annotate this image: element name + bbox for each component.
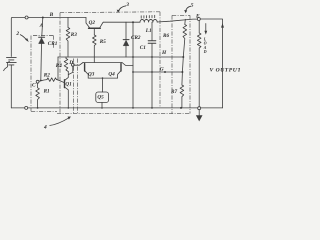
svg-text:E: E bbox=[195, 13, 200, 19]
box5 right bbox=[189, 15, 191, 113]
resistor R3 bbox=[66, 18, 70, 58]
resistor R1 bbox=[36, 83, 40, 108]
svg-text:C: C bbox=[32, 83, 36, 89]
svg-text:Q5: Q5 bbox=[97, 95, 104, 101]
svg-text:4: 4 bbox=[43, 125, 47, 131]
svg-text:C1: C1 bbox=[140, 45, 146, 51]
resistor R4 bbox=[64, 57, 68, 72]
svg-text:Q3: Q3 bbox=[88, 71, 95, 77]
ground bbox=[198, 110, 200, 116]
node C bbox=[36, 80, 39, 83]
svg-text:R2: R2 bbox=[44, 73, 50, 79]
Q4 emitter bbox=[118, 71, 121, 78]
node A bbox=[42, 17, 44, 19]
svg-text:R1: R1 bbox=[44, 88, 50, 94]
wire Q5 down bbox=[101, 102, 103, 108]
svg-text:D: D bbox=[203, 50, 207, 54]
leader battery squiggle bbox=[4, 62, 11, 71]
leader 2 bbox=[20, 35, 27, 41]
svg-text:Q4: Q4 bbox=[108, 71, 115, 77]
svg-text:B: B bbox=[49, 12, 54, 18]
box3 right bbox=[159, 12, 161, 108]
box2 left bbox=[30, 36, 32, 112]
svg-text:R6: R6 bbox=[163, 33, 169, 39]
wire D rail to tub bbox=[74, 63, 83, 66]
wire L1 to node E bbox=[157, 19, 197, 22]
svg-text:2: 2 bbox=[15, 31, 19, 37]
leader 3 bbox=[118, 6, 126, 11]
svg-text:R5: R5 bbox=[100, 39, 106, 45]
Q4 bar bbox=[120, 64, 122, 72]
terminal bottom bbox=[25, 106, 28, 109]
box4 left a bbox=[73, 59, 75, 114]
box4 left b bbox=[77, 59, 79, 114]
transistor Q1 bbox=[65, 72, 69, 108]
junction dots bbox=[37, 56, 185, 109]
output up arrow bbox=[221, 23, 224, 27]
wire D down to Q1 collector bbox=[68, 66, 73, 74]
wire Q2 collector out bbox=[104, 21, 140, 23]
svg-text:Q2: Q2 bbox=[89, 20, 96, 26]
wire bottom bus bbox=[11, 107, 222, 109]
node E terminal bbox=[197, 18, 200, 21]
diode CR1 bbox=[39, 36, 45, 38]
svg-text:CR1: CR1 bbox=[48, 41, 58, 47]
resistor R7 bbox=[180, 85, 184, 108]
svg-text:H: H bbox=[161, 50, 167, 56]
leader 5 bbox=[186, 6, 191, 11]
wire battery to bottom bbox=[10, 65, 12, 108]
L1 core bbox=[141, 15, 155, 18]
label LOAD vertical bbox=[203, 37, 207, 54]
svg-text:R3: R3 bbox=[71, 32, 77, 38]
svg-text:5: 5 bbox=[191, 3, 194, 9]
transistor Q2 bbox=[86, 18, 104, 36]
wire G (y72) bbox=[133, 71, 182, 73]
Q3 emitter bbox=[85, 71, 88, 78]
wire H (y57) bbox=[58, 56, 183, 58]
wire C to R2 bbox=[39, 80, 47, 82]
box2 right bbox=[53, 36, 55, 49]
svg-text:A: A bbox=[39, 23, 44, 29]
terminal load bottom bbox=[198, 107, 201, 110]
Q3 Q4 tub bbox=[74, 63, 133, 93]
svg-text:3: 3 bbox=[125, 2, 129, 8]
terminal top bbox=[25, 16, 28, 19]
Q3 bar bbox=[84, 64, 86, 72]
top rail bbox=[83, 62, 122, 64]
box2 top bbox=[33, 35, 54, 37]
box5 top bbox=[172, 14, 190, 16]
svg-text:CR2: CR2 bbox=[131, 35, 141, 41]
box3 bottom bbox=[57, 113, 190, 115]
svg-text:R4: R4 bbox=[56, 63, 62, 69]
wire CR1 to base row bbox=[40, 44, 43, 81]
svg-text:R7: R7 bbox=[171, 89, 177, 95]
node D bbox=[71, 63, 74, 66]
wire top bus left bbox=[12, 17, 86, 19]
load current down arrow bbox=[205, 24, 207, 32]
wire x133 column bbox=[132, 22, 134, 108]
svg-text:Q1: Q1 bbox=[65, 81, 72, 87]
inductor L1 bbox=[140, 19, 157, 22]
wire E to output corner bbox=[200, 19, 222, 108]
capacitor C1 bbox=[148, 40, 156, 42]
box2 bottom bbox=[31, 110, 57, 112]
wire R2 to Q1 base bbox=[56, 80, 63, 83]
box3 left bbox=[59, 13, 61, 114]
enclosure dash-dot lines bbox=[31, 12, 190, 114]
box5 left bbox=[171, 15, 173, 113]
resistor R5 bbox=[93, 35, 97, 62]
diode CR2 bbox=[123, 39, 129, 41]
resistor R6 bbox=[182, 19, 186, 72]
capacitor C1 column bbox=[151, 22, 153, 40]
transistor Q5 box bbox=[96, 92, 109, 102]
leader 4 bbox=[50, 118, 70, 126]
svg-text:V OUTPUT: V OUTPUT bbox=[210, 68, 241, 74]
load resistor bbox=[197, 21, 201, 107]
wire left vertical to battery bbox=[10, 18, 13, 57]
right diag out bbox=[122, 63, 133, 66]
resistor R2 bbox=[47, 78, 56, 82]
emitter rail bbox=[88, 77, 117, 79]
wire node A down bbox=[42, 18, 43, 37]
tap to Q5 bbox=[102, 78, 104, 92]
svg-text:D: D bbox=[68, 60, 73, 66]
svg-text:L1: L1 bbox=[145, 28, 152, 34]
svg-text:G: G bbox=[160, 66, 164, 72]
diode CR2 column bbox=[125, 22, 127, 39]
battery 2 bbox=[7, 57, 17, 65]
box3 top bbox=[60, 11, 160, 14]
wire 57 corner down bbox=[57, 57, 59, 80]
node j133 bbox=[132, 21, 134, 23]
wire R7 column top bbox=[181, 72, 184, 85]
